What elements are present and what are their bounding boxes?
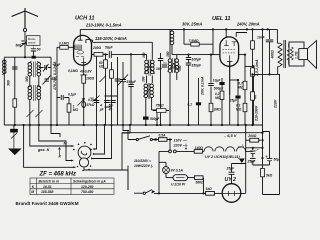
svg-text:0,1MΩ: 0,1MΩ	[59, 42, 69, 46]
svg-text:520: 520	[52, 77, 58, 81]
frequency table	[30, 178, 114, 195]
AVC resistor chain	[97, 54, 121, 125]
svg-text:25µF: 25µF	[229, 99, 239, 103]
svg-text:0,1MΩ: 0,1MΩ	[68, 69, 78, 73]
svg-text:+3pF: +3pF	[53, 63, 62, 67]
cap 0.3uF	[90, 98, 99, 103]
cap 0.1uF grid return	[196, 78, 201, 125]
svg-text:Brandt Favorit 3449 GW2/KM: Brandt Favorit 3449 GW2/KM	[16, 201, 79, 206]
cap 25uF black	[230, 79, 241, 125]
svg-text:210-190V: 210-190V	[255, 105, 259, 122]
UCH plate lead to HT rail	[79, 29, 81, 35]
barretter U2/10Pl	[166, 175, 188, 181]
resistor 75k	[153, 109, 169, 113]
HT rail 210-190V	[80, 28, 277, 30]
mains switch pole1	[128, 131, 159, 141]
svg-text:160: 160	[156, 67, 162, 71]
svg-text:680Ω: 680Ω	[196, 180, 205, 184]
grid resistor 0.1M left of tube	[57, 45, 68, 125]
ZF pointer dots	[83, 170, 89, 171]
svg-text:K: K	[59, 155, 62, 159]
svg-text:400Ω: 400Ω	[270, 50, 274, 60]
svg-text:240V, 20mA: 240V, 20mA	[236, 22, 260, 27]
UCH11 internals	[68, 35, 90, 75]
svg-text:UEL 11: UEL 11	[212, 16, 230, 22]
svg-text:200Ω: 200Ω	[92, 46, 102, 50]
svg-text:0,5A: 0,5A	[159, 134, 167, 138]
resistor 200 right	[246, 138, 261, 142]
resistor 5k	[261, 74, 280, 194]
cathode resistor 160	[80, 75, 87, 125]
svg-text:750-480: 750-480	[81, 190, 94, 194]
volume potentiometer 97k	[78, 99, 86, 108]
screen bypass 50uF	[104, 51, 146, 58]
svg-text:M: M	[31, 190, 34, 194]
rotary wave band switch	[59, 142, 105, 167]
chassis cap + earth	[9, 125, 20, 155]
cap 25uF	[245, 65, 256, 125]
fuse 0.5A	[159, 138, 173, 142]
band switch nested wires left	[24, 125, 76, 168]
junction dots antenna rail	[24, 56, 35, 58]
resistor 680	[158, 176, 205, 195]
triode anode rail 115-100V	[91, 40, 153, 42]
cap 10uF grid	[208, 54, 214, 126]
svg-text:530µF: 530µF	[127, 80, 137, 84]
svg-text:50µ: 50µ	[274, 158, 280, 162]
svg-text:16-51: 16-51	[43, 185, 52, 189]
mains pole2 switch	[128, 166, 206, 195]
svg-text:500µF: 500µF	[150, 117, 160, 121]
oscillator trimmer 530pF	[118, 62, 129, 125]
svg-text:MΩ: MΩ	[215, 96, 221, 100]
svg-text:20V, 0,1mA: 20V, 0,1mA	[201, 76, 205, 96]
svg-text:kΩ: kΩ	[99, 65, 104, 69]
dial lamp 8V 0.1A	[163, 167, 170, 178]
IF transformer 1	[144, 42, 164, 125]
svg-text:185-588: 185-588	[41, 190, 54, 194]
resistors 0.7M and 0.1M column	[239, 54, 247, 126]
antenna	[12, 8, 39, 40]
capacitor on second left wire	[12, 67, 17, 69]
output transformer	[251, 29, 290, 75]
svg-text:10nF: 10nF	[257, 36, 266, 40]
svg-text:218V: 218V	[274, 99, 278, 109]
svg-text:U 2/10 Pl: U 2/10 Pl	[171, 182, 185, 186]
coupling cap 0.1uF	[57, 95, 69, 100]
trimmer arrow near x96	[94, 96, 100, 102]
svg-text:75kΩ: 75kΩ	[156, 104, 165, 108]
svg-text:110V ----: 110V ----	[174, 139, 189, 143]
svg-text:30V, 25mA: 30V, 25mA	[182, 22, 202, 27]
svg-text:UCH 11: UCH 11	[75, 16, 94, 22]
cap 10nF to output	[266, 29, 274, 74]
svg-text:10µF: 10µF	[213, 79, 222, 83]
svg-text:500µF: 500µF	[214, 87, 224, 91]
svg-text:140Ω: 140Ω	[195, 146, 204, 150]
HT dropper chain right	[251, 28, 255, 125]
svg-text:150pF: 150pF	[192, 64, 203, 68]
svg-text:50: 50	[37, 48, 41, 52]
svg-text:360: 360	[7, 80, 11, 86]
svg-text:ZF = 468 kHz: ZF = 468 kHz	[39, 171, 77, 177]
antenna series trimmer 500	[20, 39, 31, 58]
vertical 218V	[262, 29, 264, 125]
band switch nested wires right	[84, 125, 130, 190]
svg-text:390: 390	[142, 52, 146, 58]
svg-text:MΩ: MΩ	[73, 108, 79, 112]
cap 25uF rectifier cathode	[229, 164, 246, 175]
svg-text:1,7Ω: 1,7Ω	[295, 51, 299, 59]
resistor 1k	[206, 192, 223, 196]
svg-text:MΩ: MΩ	[238, 85, 244, 89]
Rueckwand coupling capacitor 50	[31, 49, 36, 57]
svg-text:7,5MΩ: 7,5MΩ	[189, 39, 199, 43]
electrolytic 25uF b	[263, 151, 273, 165]
svg-text:100pF: 100pF	[192, 58, 203, 62]
cap on screen row x131	[128, 53, 133, 125]
Rueckwand box	[27, 36, 41, 49]
svg-text:– 6,5 V: – 6,5 V	[224, 133, 237, 138]
svg-text:wand: wand	[28, 41, 36, 45]
svg-text:160Ω: 160Ω	[86, 77, 95, 81]
vertical right loop	[261, 125, 263, 168]
cap 500uF black + resistor 0.2M	[219, 78, 224, 125]
UY2 rectifier tube	[222, 174, 241, 202]
svg-text:390: 390	[166, 51, 170, 57]
svg-text:8V 0,1A: 8V 0,1A	[171, 169, 184, 173]
svg-text:2MΩ: 2MΩ	[213, 108, 222, 112]
padder 520	[43, 76, 51, 85]
heater chain winding	[204, 145, 253, 152]
svg-text:40-0,8V: 40-0,8V	[79, 70, 92, 74]
lamp feed wiring	[159, 151, 166, 193]
resistor lower left	[13, 99, 17, 107]
svg-text:120-250: 120-250	[81, 185, 94, 189]
svg-text:97kΩ: 97kΩ	[87, 103, 95, 107]
svg-text:5kΩ: 5kΩ	[266, 174, 273, 178]
svg-text:25µF: 25µF	[247, 160, 257, 164]
right feed to cathode	[239, 125, 246, 193]
svg-text:390: 390	[178, 65, 182, 71]
electrolytic 500uF block	[143, 117, 149, 120]
svg-text:115-100V, 0-6mA: 115-100V, 0-6mA	[95, 36, 127, 41]
svg-text:0,1µF: 0,1µF	[68, 93, 77, 97]
dropper 140	[194, 150, 204, 154]
svg-text:1kΩ: 1kΩ	[206, 187, 213, 191]
rail junction dots	[225, 28, 269, 30]
wire left verticals	[4, 57, 51, 125]
svg-text:gez. K: gez. K	[37, 147, 51, 152]
caps 100pF 150pF	[177, 54, 191, 126]
IF transformer 2	[162, 29, 180, 125]
UEL11 tube envelope	[220, 37, 239, 66]
svg-text:UY 2 UCH11(UEL11): UY 2 UCH11(UEL11)	[205, 155, 240, 159]
resistor 7.5M	[183, 28, 214, 54]
svg-text:210-190V, 0-1,5mA: 210-190V, 0-1,5mA	[85, 23, 122, 28]
svg-text:0,1: 0,1	[188, 103, 193, 107]
input bandfilter coils upper	[28, 56, 42, 77]
svg-text:45: 45	[108, 107, 113, 111]
svg-text:Bereich in m: Bereich in m	[39, 179, 59, 183]
svg-text:50µF: 50µF	[105, 46, 114, 50]
UEL11 internals	[215, 29, 248, 95]
trimmer +3pF	[39, 64, 51, 72]
svg-text:Schwingstrom in µA: Schwingstrom in µA	[73, 179, 106, 183]
heater return wire -6.5V	[122, 132, 263, 134]
svg-text:2,5-1,4mA: 2,5-1,4mA	[255, 59, 259, 77]
svg-text:10W/220V (-: 10W/220V (-	[134, 164, 154, 168]
osc caps 4nF 50nF	[104, 96, 117, 107]
screen feed row with 200 resistor	[92, 53, 109, 57]
resistor 1M vertical	[67, 98, 71, 126]
svg-text:200Ω: 200Ω	[247, 134, 257, 138]
svg-text:360: 360	[25, 76, 29, 82]
cathode lead down	[229, 62, 231, 126]
svg-text:UY 2: UY 2	[225, 177, 237, 183]
svg-text:25µF: 25µF	[226, 166, 236, 170]
coil 360 antenna coil	[2, 60, 7, 75]
electrolytics right	[246, 147, 263, 165]
output choke on HT rail	[170, 29, 177, 54]
chassis ground bus	[4, 124, 263, 126]
input bandfilter coils lower	[28, 76, 42, 125]
svg-text:220V ----: 220V ----	[173, 143, 189, 147]
svg-text:100: 100	[171, 66, 176, 70]
svg-text:MΩ: MΩ	[236, 107, 242, 111]
svg-text:500: 500	[16, 44, 22, 48]
junction dots on bus	[14, 124, 254, 126]
loudspeaker	[289, 41, 317, 69]
svg-text:0,3µF: 0,3µF	[88, 98, 97, 102]
UCH11 tube envelope	[74, 35, 92, 65]
voltage selector	[159, 141, 194, 153]
trimmer arrows near bus	[27, 110, 43, 117]
svg-text:390: 390	[142, 76, 146, 82]
node A antenna rail	[4, 56, 51, 58]
svg-text:110/220V ≈: 110/220V ≈	[134, 159, 151, 163]
